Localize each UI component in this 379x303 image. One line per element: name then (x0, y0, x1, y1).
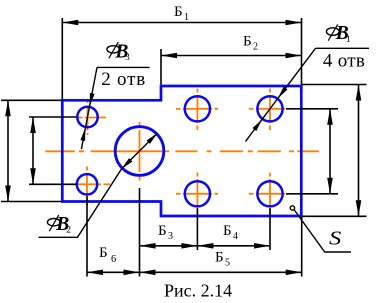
svg-text:Б: Б (99, 245, 108, 261)
callout V3 leader (81, 67, 149, 149)
dim B2 extension left (160, 49, 162, 85)
centerline hole bottom-right (249, 173, 285, 216)
hole big circle (115, 127, 164, 176)
dim B6 B5 line (87, 271, 302, 273)
dim B1 extension left (61, 18, 63, 99)
label dia V1 (326, 23, 351, 45)
dim B1/B2 extension right (301, 18, 303, 85)
left inner dim line (32, 117, 34, 184)
left outer dim ext bottom (1, 201, 61, 203)
svg-text:S: S (329, 227, 341, 249)
callout V3 arrows (outside rim) (80, 93, 94, 141)
callout V2 leader (39, 133, 158, 237)
svg-text:1: 1 (346, 35, 351, 45)
B3 arrows (140, 243, 156, 249)
svg-text:2: 2 (66, 226, 71, 236)
left outer arrows (5, 100, 11, 116)
callout V1 leader (246, 48, 370, 141)
B6 arrows (87, 270, 103, 276)
hole bottom-right (B1) (257, 181, 282, 206)
dim labels (99, 4, 258, 269)
label dia V3 (107, 41, 130, 63)
left outer dim line (7, 100, 9, 201)
centerline big circle vertical (139, 122, 141, 181)
dim B1 line (62, 22, 301, 24)
right outer dim ext bottom (302, 215, 367, 217)
B4 arrows (197, 243, 213, 249)
bottom ext hole bl (196, 208, 198, 250)
hole small top (B3) (77, 107, 97, 127)
svg-text:3: 3 (168, 231, 173, 242)
svg-text:4: 4 (233, 231, 238, 242)
hole top-left (B1) (185, 96, 210, 121)
right inner arrows (327, 109, 333, 125)
bottom ext hole br (269, 208, 271, 250)
B2 arrows (161, 53, 177, 59)
right inner dim ext bottom (286, 193, 338, 195)
svg-text:Рис. 2.14: Рис. 2.14 (164, 281, 232, 301)
svg-text:Б: Б (243, 34, 252, 50)
B5 arrows (140, 270, 156, 276)
svg-text:Б: Б (174, 4, 183, 20)
left inner arrows (30, 117, 36, 133)
svg-text:3: 3 (125, 53, 130, 63)
bottom ext big circle (139, 188, 141, 277)
right outer dim line (358, 85, 360, 217)
centerline hole top-right (249, 89, 285, 131)
centerline small hole bottom (71, 167, 110, 206)
centerline main horizontal (45, 89, 319, 216)
svg-text:4 отв: 4 отв (323, 51, 365, 72)
svg-text:2: 2 (253, 42, 258, 53)
centerline hole bottom-left (176, 173, 218, 216)
S leader (290, 206, 351, 252)
left inner dim ext top (29, 116, 77, 118)
svg-text:2 отв: 2 отв (101, 69, 146, 90)
dim B3 B4 line (140, 245, 271, 247)
dim B2 line (161, 55, 302, 57)
arrows (5, 20, 361, 275)
svg-text:Б: Б (223, 223, 232, 239)
centerline small hole top (78, 99, 106, 135)
bottom ext right corner (301, 217, 303, 277)
hole bottom-left (B1) (185, 181, 210, 206)
left inner dim ext bottom (29, 183, 77, 185)
svg-text:1: 1 (184, 12, 189, 23)
callout V1 arrows (outside rim) (253, 87, 288, 131)
hole small bottom (B3) (77, 174, 97, 194)
svg-text:Б: Б (158, 223, 167, 239)
bottom ext small hole (86, 196, 88, 277)
label dia V2 (47, 214, 71, 236)
part outline (62, 86, 301, 216)
right outer arrows (356, 85, 362, 101)
svg-text:5: 5 (225, 258, 230, 269)
left outer dim ext top (1, 99, 61, 101)
svg-text:6: 6 (111, 254, 116, 265)
right inner dim ext top (286, 108, 338, 110)
right inner dim line (329, 109, 331, 194)
centerline hole top-left (176, 89, 218, 131)
B1 arrows (62, 20, 78, 26)
svg-text:Б: Б (215, 250, 224, 266)
callout V2 arrows (inside rim) (122, 133, 158, 169)
hole top-right (B1) (257, 96, 282, 121)
right outer dim ext top (302, 84, 367, 86)
